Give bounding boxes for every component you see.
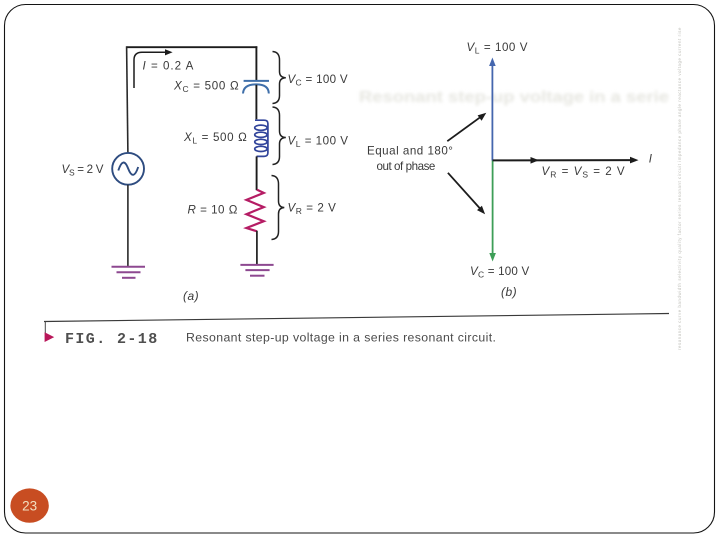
wire source to ground <box>127 185 129 266</box>
wire right upper <box>255 46 257 80</box>
wire left upper <box>127 46 128 153</box>
ground right <box>240 265 273 276</box>
caption rule <box>44 314 669 322</box>
svg-text:Equal and 180°: Equal and 180° <box>367 145 453 158</box>
svg-text:(b): (b) <box>501 285 517 299</box>
svg-text:Resonant step-up voltage in a: Resonant step-up voltage in a serie <box>359 89 669 106</box>
svg-text:VS = 2 V: VS = 2 V <box>62 163 104 178</box>
brace VR <box>272 176 285 240</box>
svg-text:resonance curve bandwidth sele: resonance curve bandwidth selectivity qu… <box>677 27 682 350</box>
page number badge <box>10 488 48 522</box>
svg-text:out of phase: out of phase <box>377 160 435 173</box>
wire inductor to resistor <box>256 156 258 190</box>
phasor VR arrow <box>493 157 639 164</box>
svg-text:FIG. 2-18: FIG. 2-18 <box>65 331 159 348</box>
annotation arrow upper <box>447 113 486 142</box>
inductor L <box>255 120 268 156</box>
phasor Vc arrow <box>489 161 496 262</box>
caption rule left tick <box>44 322 46 334</box>
resistor R <box>246 190 263 232</box>
svg-text:23: 23 <box>22 499 37 514</box>
svg-text:Resonant step-up voltage in a: Resonant step-up voltage in a series res… <box>186 330 496 344</box>
svg-text:VR = 2 V: VR = 2 V <box>288 201 337 216</box>
annotation arrow lower <box>448 173 485 214</box>
caption marker <box>45 332 55 342</box>
ground left <box>112 267 146 278</box>
source U Vs <box>112 153 144 185</box>
wire capacitor to inductor <box>255 85 257 120</box>
current arrow <box>134 49 173 88</box>
svg-text:(a): (a) <box>183 289 199 303</box>
svg-text:I = 0.2 A: I = 0.2 A <box>143 60 195 73</box>
phasor VL arrow <box>489 58 496 161</box>
svg-text:R = 10 Ω: R = 10 Ω <box>188 203 238 216</box>
brace Vc <box>273 52 286 104</box>
capacitor C <box>243 81 269 94</box>
wire resistor to ground <box>256 231 258 264</box>
brace VL <box>273 107 286 165</box>
wire top <box>127 46 258 48</box>
label Equal and 180 out of phase <box>367 145 453 174</box>
